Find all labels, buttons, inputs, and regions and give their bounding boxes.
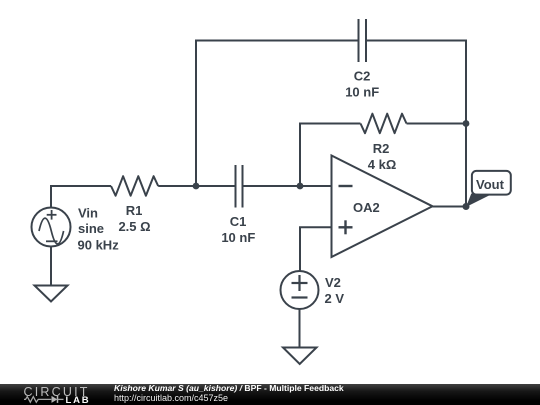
credit line 1 bbox=[114, 383, 344, 393]
svg-text:C2: C2 bbox=[354, 69, 371, 84]
svg-text:R1: R1 bbox=[126, 203, 143, 218]
svg-text:R2: R2 bbox=[373, 141, 390, 156]
wire OA2 noninverting input to V2 bbox=[300, 227, 332, 271]
voltage source V2 bbox=[281, 271, 319, 309]
node junction R1/C1/C2 bbox=[193, 183, 200, 190]
svg-text:C1: C1 bbox=[230, 214, 247, 229]
svg-text:OA2: OA2 bbox=[353, 200, 380, 215]
wire Vin to ground bbox=[50, 247, 52, 286]
R2 value 4 kΩ bbox=[368, 157, 397, 172]
C2 label bbox=[354, 69, 371, 84]
svg-text:4 kΩ: 4 kΩ bbox=[368, 157, 397, 172]
wire Vin top to R1 bbox=[51, 186, 111, 208]
svg-text:10 nF: 10 nF bbox=[345, 85, 379, 100]
wire node up to C2 bbox=[196, 41, 359, 187]
C1 value 10 nF bbox=[221, 230, 255, 245]
svg-text:V2: V2 bbox=[325, 275, 341, 290]
V2 label bbox=[325, 275, 341, 290]
node inverting input junction bbox=[297, 183, 304, 190]
R1 value 2.5 Ω bbox=[118, 219, 150, 234]
svg-text:90 kHz: 90 kHz bbox=[78, 238, 120, 253]
node Vout bbox=[463, 203, 470, 210]
CircuitLab logo bbox=[0, 384, 110, 405]
svg-text:2.5 Ω: 2.5 Ω bbox=[118, 219, 150, 234]
resistor R1 bbox=[111, 176, 158, 196]
node junction R2/C2/output bbox=[463, 120, 470, 127]
wire OA2 output to Vout node bbox=[433, 206, 467, 208]
svg-text:Vout: Vout bbox=[476, 177, 505, 192]
R1 label bbox=[126, 203, 143, 218]
wire C1 to OA2 inverting input bbox=[243, 185, 332, 187]
wire C2 to output branch bbox=[366, 41, 466, 207]
Vin label bbox=[78, 206, 98, 221]
svg-text:LAB: LAB bbox=[66, 395, 91, 405]
C1 label bbox=[230, 214, 247, 229]
Vin frequency 90 kHz bbox=[78, 238, 120, 253]
R2 label bbox=[373, 141, 390, 156]
ground under V2 bbox=[283, 348, 317, 365]
Vin type sine bbox=[78, 221, 104, 236]
wire R2 to output branch bbox=[407, 123, 467, 125]
OA2 label bbox=[353, 200, 380, 215]
wire V2 to ground bbox=[299, 309, 301, 347]
net flag Vout bbox=[466, 171, 511, 207]
svg-text:2 V: 2 V bbox=[325, 291, 345, 306]
resistor R2 bbox=[361, 114, 407, 134]
wire R1 to C1 bbox=[158, 185, 235, 187]
capacitor C2 bbox=[359, 19, 367, 62]
credit line 2 bbox=[114, 393, 228, 403]
svg-text:sine: sine bbox=[78, 221, 104, 236]
capacitor C1 bbox=[236, 165, 243, 208]
wire inverting node up to R2 bbox=[300, 124, 361, 187]
V2 value 2 V bbox=[325, 291, 345, 306]
svg-text:10 nF: 10 nF bbox=[221, 230, 255, 245]
C2 value 10 nF bbox=[345, 85, 379, 100]
op-amp OA2 bbox=[332, 156, 433, 258]
footer bar bbox=[0, 384, 540, 405]
ground under Vin bbox=[35, 286, 68, 302]
voltage source Vin bbox=[32, 208, 71, 247]
svg-text:Vin: Vin bbox=[78, 206, 98, 221]
